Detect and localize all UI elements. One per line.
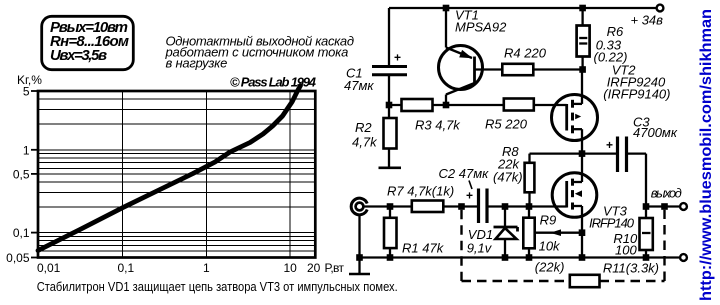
ground (R2): [379, 167, 402, 170]
node VD1 top: [502, 203, 509, 210]
wire: C1 to node A: [388, 75, 390, 118]
transistor VT1: [439, 8, 508, 106]
distortion curve: [38, 86, 301, 251]
wire: C2 to VT3 gate: [487, 205, 567, 207]
annotation text: [165, 33, 355, 70]
svg-text:http://www.bluesmobil.com/shik: http://www.bluesmobil.com/shikhman: [698, 9, 715, 301]
svg-text:IRFP140: IRFP140: [589, 216, 635, 231]
svg-text:Kг,%: Kг,%: [17, 73, 42, 87]
capacitor C1: [344, 51, 407, 94]
resistor R3: [402, 99, 462, 133]
ground (input): [349, 258, 370, 275]
x axis labels: [37, 261, 345, 275]
wire: node to R8: [530, 154, 583, 163]
svg-text:R3 4,7k: R3 4,7k: [415, 118, 461, 133]
wire: jack shield down: [358, 215, 360, 258]
svg-text:0,1: 0,1: [13, 226, 30, 240]
potentiometer R9: [523, 207, 582, 275]
svg-text:4700мк: 4700мк: [633, 125, 678, 140]
svg-text:+ 34в: + 34в: [631, 13, 664, 28]
svg-text:47мк: 47мк: [344, 78, 374, 93]
svg-text:1: 1: [203, 261, 210, 275]
zener diode VD1: [467, 207, 518, 258]
node wiper/VT3 source: [579, 229, 586, 236]
svg-text:в нагрузке: в нагрузке: [166, 55, 228, 70]
svg-text:9,1v: 9,1v: [467, 241, 493, 256]
transistor VT3 (N-MOSFET): [552, 154, 635, 258]
svg-text:4,7k: 4,7k: [352, 135, 378, 150]
y axis labels: [6, 85, 30, 265]
node rail/VD1: [502, 254, 509, 261]
svg-text:0,1: 0,1: [118, 261, 135, 275]
wire: +34V top rail: [389, 7, 657, 9]
svg-text:20: 20: [307, 261, 321, 275]
dashed feedback branch with R11: [462, 210, 665, 287]
svg-text:+: +: [606, 138, 613, 152]
svg-text:Uвх=3,5в: Uвх=3,5в: [50, 47, 107, 64]
svg-text:C2 47мк: C2 47мк: [439, 166, 490, 181]
svg-text:100: 100: [615, 243, 637, 258]
terminal +34V: [631, 5, 664, 28]
node rail/R1: [387, 254, 394, 261]
svg-text:R11(3.3k): R11(3.3k): [603, 261, 659, 276]
graph grid: [38, 91, 315, 258]
svg-text:0,05: 0,05: [6, 251, 30, 265]
node output/dashed R11: [661, 203, 668, 210]
node A (C1/R2/R3): [386, 102, 393, 109]
resistor R4: [502, 46, 582, 76]
svg-text:R4 220: R4 220: [504, 46, 547, 61]
svg-text:R2: R2: [355, 120, 372, 135]
resistor R1: [384, 207, 445, 258]
svg-text:10k: 10k: [539, 239, 561, 254]
svg-text:0,01: 0,01: [37, 261, 61, 275]
graph frame: [38, 91, 315, 258]
terminal output ground: [680, 254, 687, 261]
svg-text:R9: R9: [540, 213, 557, 228]
wire: jack to R7: [363, 205, 411, 207]
wire: R2 to ground: [388, 149, 390, 168]
svg-text:(IRFP9140): (IRFP9140): [603, 87, 670, 102]
node VT1 collector: [443, 102, 450, 109]
node VT2 source / R8 / C3 / VT3 drain: [579, 150, 586, 157]
node R4/R6/VT2 drain: [579, 66, 586, 73]
node rail/R6: [579, 5, 586, 12]
svg-text:R7 4,7k(1k): R7 4,7k(1k): [387, 183, 454, 198]
svg-text:0,5: 0,5: [13, 168, 30, 182]
input jack: [351, 198, 367, 215]
svg-text:10: 10: [284, 261, 298, 275]
svg-text:выход: выход: [651, 186, 682, 201]
resistor R2: [352, 118, 397, 150]
node C3/R10: [643, 203, 650, 210]
svg-text:© Pass Lab 1994: © Pass Lab 1994: [230, 75, 317, 90]
capacitor C2: [439, 166, 490, 223]
node R7/C2/dashed feedback: [458, 203, 465, 210]
resistor R6: [577, 8, 628, 70]
svg-text:P,вт: P,вт: [325, 261, 345, 275]
svg-text:MPSA92: MPSA92: [455, 20, 507, 35]
node rail/VT1: [443, 5, 450, 12]
node R8/R9: [526, 203, 533, 210]
svg-text:R5 220: R5 220: [485, 117, 528, 132]
transistor VT2 (P-MOSFET): [552, 63, 671, 154]
svg-text:+: +: [394, 51, 401, 65]
wire: VT1 emitter from rail: [446, 8, 472, 58]
node rail/R9: [526, 254, 533, 261]
svg-text:5: 5: [23, 85, 30, 99]
wire: left branch from rail to C1: [388, 8, 390, 67]
resistor R7: [387, 183, 477, 212]
svg-text:Стабилитрон VD1 защищает цепь: Стабилитрон VD1 защищает цепь затвора VT…: [37, 280, 398, 294]
svg-text:R1 47k: R1 47k: [402, 241, 445, 256]
svg-text:(47k): (47k): [493, 170, 523, 185]
node rail/R10: [643, 254, 650, 261]
svg-text:+: +: [466, 189, 473, 203]
node rail/jack: [356, 254, 363, 261]
svg-text:(22k): (22k): [535, 260, 565, 275]
resistor R5: [485, 99, 534, 132]
wire: R3-R5 line: [389, 104, 567, 106]
capacitor C3: [582, 115, 678, 207]
resistor R8: [493, 144, 534, 207]
node jack/R1/R7: [387, 203, 394, 210]
resistor R10: [613, 207, 652, 258]
y axis ticks: [31, 91, 38, 258]
node rail/VT3 source: [579, 254, 586, 261]
parameter box: [42, 16, 134, 69]
svg-text:1: 1: [23, 144, 30, 158]
wire: bottom common rail: [360, 256, 681, 258]
terminal output (выход): [651, 186, 687, 210]
wire: output line: [646, 205, 680, 207]
